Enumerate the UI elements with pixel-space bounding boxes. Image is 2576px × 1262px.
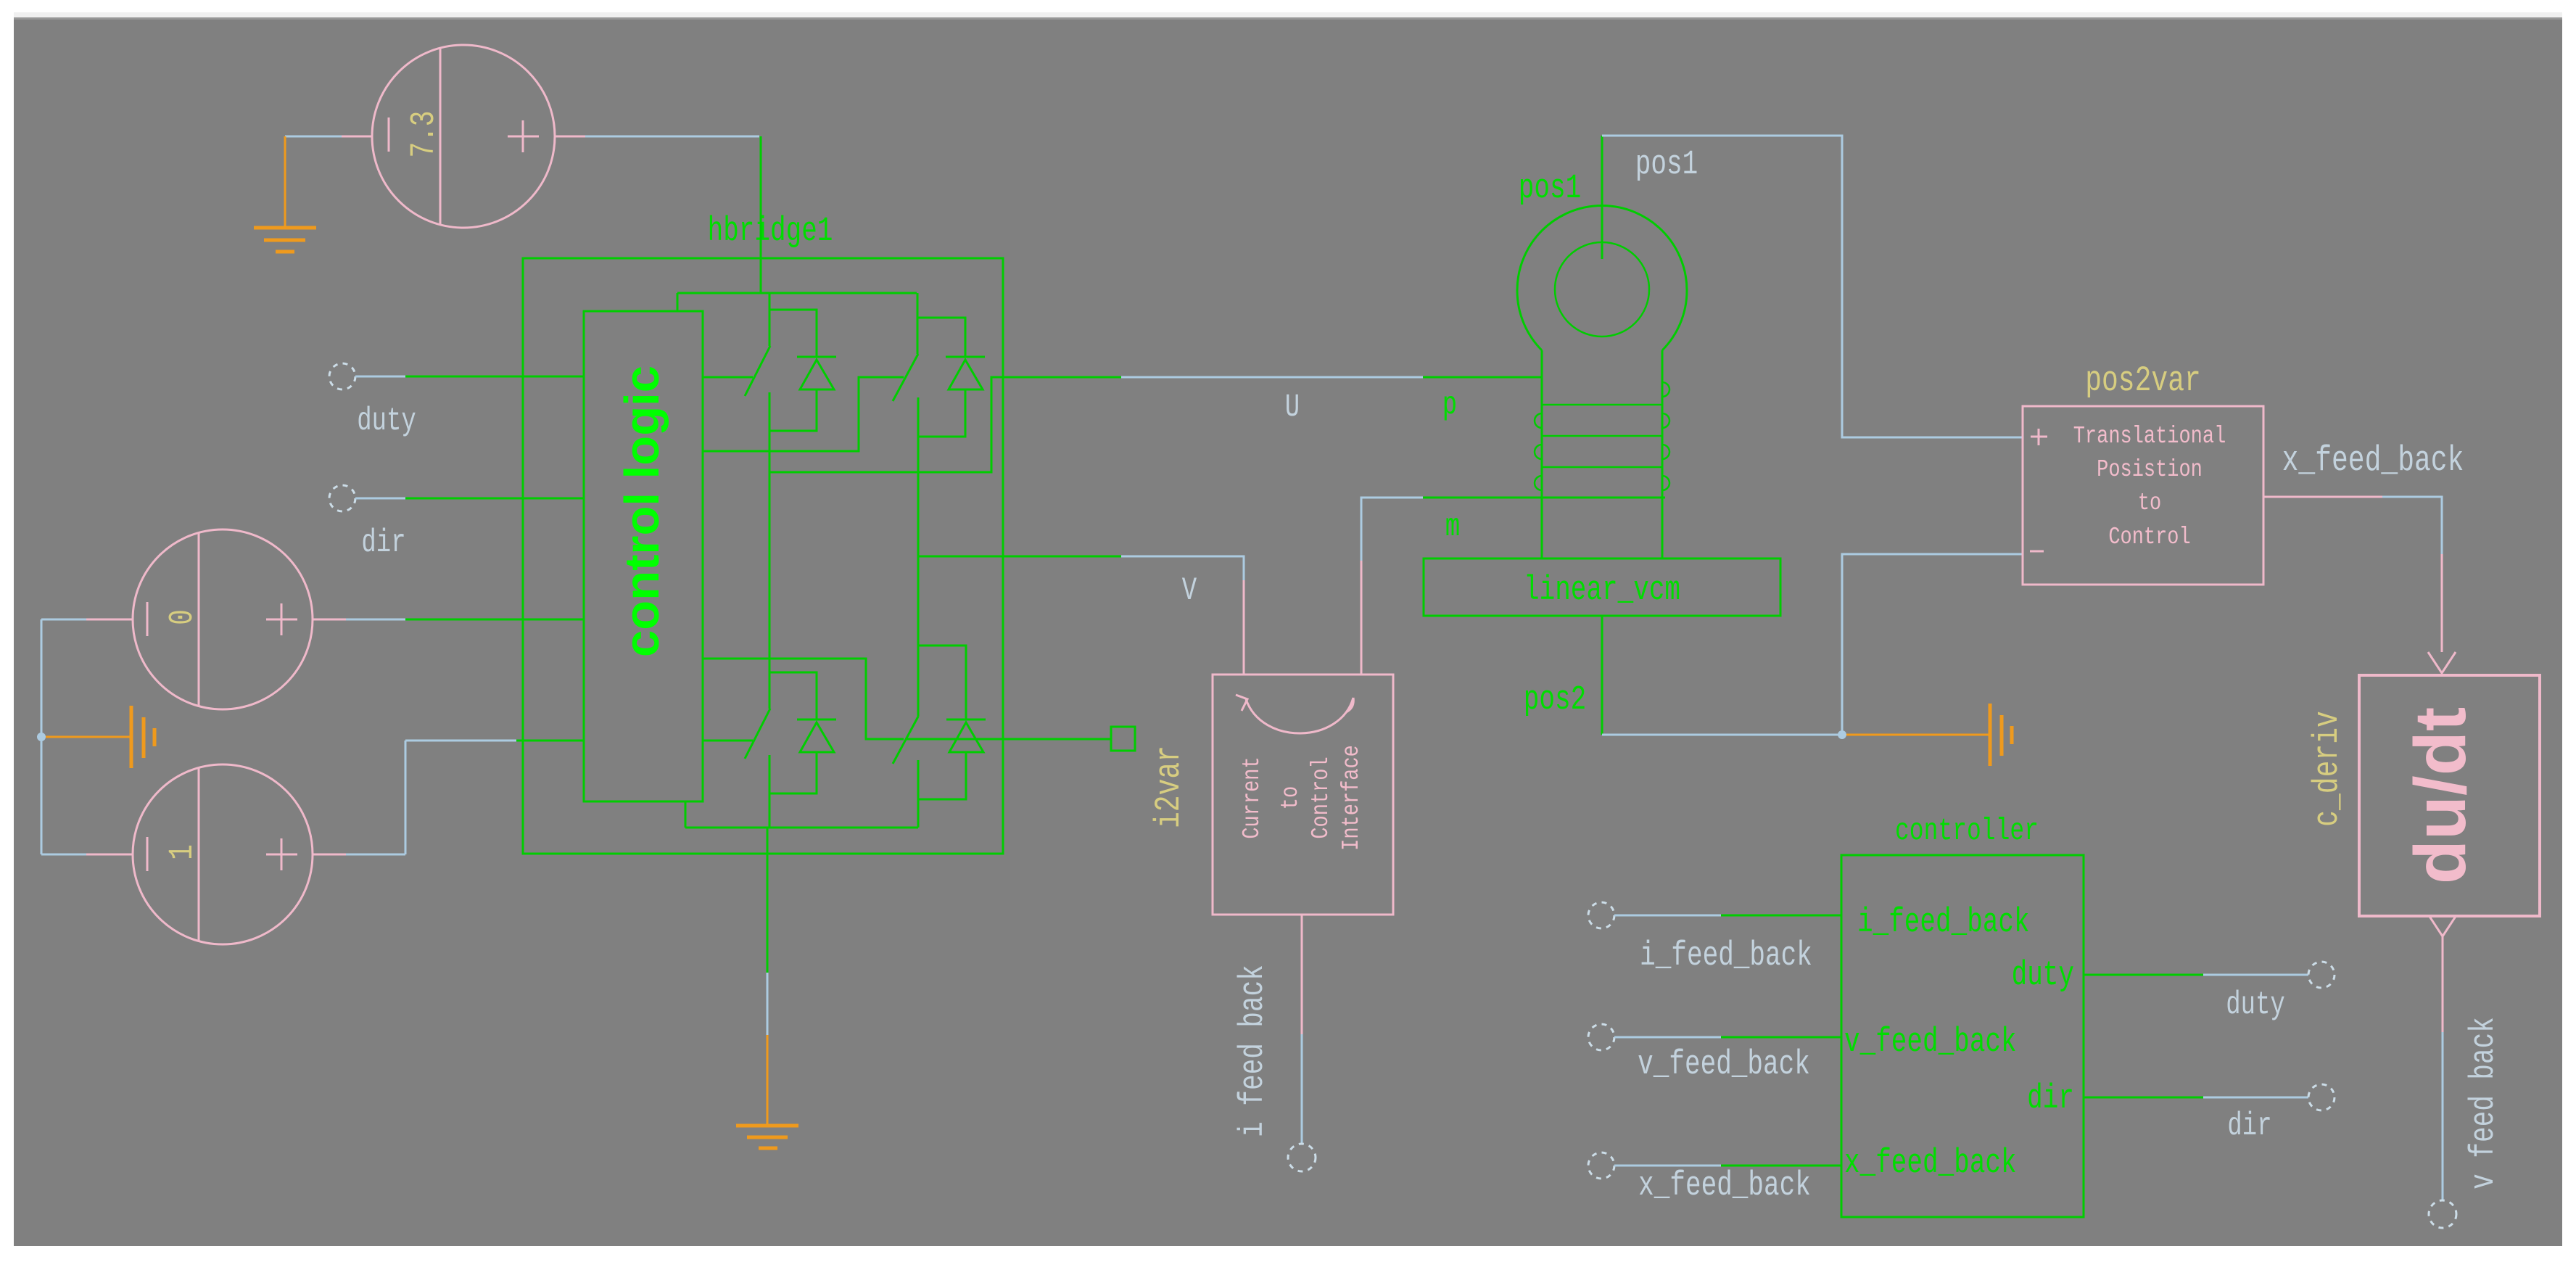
switch S1 top terminal bbox=[769, 293, 771, 346]
top rail bbox=[677, 292, 917, 294]
svg-text:p: p bbox=[1442, 387, 1457, 423]
phase U branch to right edge bbox=[769, 377, 1003, 472]
wire x_feed_back from pos2var to c_deriv bbox=[2263, 496, 2382, 498]
diode D2 bbox=[946, 356, 985, 358]
controller block box bbox=[1841, 855, 2084, 1217]
vcm ring outer bbox=[1517, 206, 1687, 350]
svg-text:Interface: Interface bbox=[1338, 745, 1366, 851]
ground at sources (rotated) bbox=[46, 706, 154, 768]
hbridge1 outer box bbox=[523, 258, 1003, 854]
svg-text:pos1: pos1 bbox=[1635, 145, 1698, 184]
svg-text:control logic: control logic bbox=[615, 366, 669, 657]
svg-text:x_feed_back: x_feed_back bbox=[2282, 441, 2464, 482]
svg-text:U: U bbox=[1285, 389, 1300, 425]
wire V2 minus left bbox=[86, 619, 133, 621]
svg-text:v feed back: v feed back bbox=[2464, 1017, 2503, 1189]
D1 anode link bbox=[769, 389, 817, 431]
svg-text:1: 1 bbox=[163, 844, 202, 860]
port v feed back bbox=[2429, 1200, 2456, 1228]
wire dir out bbox=[2084, 1097, 2203, 1099]
pos1 stem into ring bbox=[1601, 136, 1603, 259]
i2var block box bbox=[1213, 675, 1393, 915]
i2var arc symbol bbox=[1246, 698, 1353, 733]
switch S2 top link from rail bbox=[917, 293, 919, 354]
port i_feed_back bbox=[1588, 902, 1614, 928]
pos2 stem bbox=[1601, 616, 1603, 735]
port x_feed_back bbox=[1588, 1152, 1614, 1179]
svg-text:Control: Control bbox=[2108, 524, 2190, 551]
D3 cathode link bbox=[769, 672, 817, 719]
D1 cathode link bbox=[769, 310, 817, 357]
voltage source V2 value 0 bbox=[133, 529, 313, 709]
svg-text:c_deriv: c_deriv bbox=[2308, 711, 2348, 827]
supply wire from V1 into bridge bbox=[760, 136, 762, 293]
svg-text:pos2var: pos2var bbox=[2085, 361, 2201, 402]
svg-text:linear_vcm: linear_vcm bbox=[1524, 571, 1680, 610]
wire duty out bbox=[2084, 974, 2203, 976]
pos2var minus pin mark bbox=[2030, 550, 2044, 553]
diode D1 bbox=[797, 356, 836, 358]
svg-text:i_feed_back: i_feed_back bbox=[1857, 903, 2030, 942]
diode D3 bbox=[797, 719, 836, 721]
svg-text:controller: controller bbox=[1895, 814, 2039, 849]
c_deriv du/dt block box bbox=[2359, 675, 2540, 916]
arrow into du/dt bbox=[2428, 652, 2456, 673]
svg-text:i2var: i2var bbox=[1149, 746, 1190, 828]
D2 anode link bbox=[918, 389, 965, 437]
svg-text:i_feed_back: i_feed_back bbox=[1640, 936, 1812, 976]
vcm body right line bbox=[1661, 350, 1664, 558]
svg-text:v_feed_back: v_feed_back bbox=[1844, 1023, 2017, 1062]
port duty (input) bbox=[329, 363, 355, 389]
S4 blade bbox=[893, 717, 918, 764]
S1 gate wire bbox=[702, 376, 753, 379]
phase V branch to right edge bbox=[918, 556, 1003, 558]
svg-text:Posistion: Posistion bbox=[2097, 456, 2203, 484]
S2 gate wire bbox=[702, 377, 904, 451]
pos2var inner text bbox=[2073, 423, 2226, 551]
SECTION: right (pos2var, du/dt, controller) bbox=[1588, 361, 2540, 1228]
bottom rail bbox=[685, 827, 918, 829]
D4 anode link bbox=[918, 752, 966, 799]
pos2var plus pin mark bbox=[2030, 429, 2047, 551]
pos2var block box bbox=[2023, 406, 2263, 585]
wire vertical joining V2/V3 minus bbox=[41, 619, 43, 854]
svg-text:Translational: Translational bbox=[2073, 423, 2226, 450]
arrow below du/dt bbox=[2429, 915, 2456, 936]
wire V1 minus to ground bbox=[342, 136, 372, 138]
svg-text:Current: Current bbox=[1239, 756, 1266, 838]
svg-text:m: m bbox=[1445, 508, 1460, 545]
diode D4 bbox=[946, 719, 986, 721]
ground at bridge bottom bbox=[736, 1035, 798, 1148]
ground drop wire bbox=[767, 828, 769, 973]
wire v feed back bbox=[2442, 936, 2444, 1032]
S2 bottom terminal / phase V vertical bbox=[917, 397, 920, 646]
port i feed back bbox=[1288, 1144, 1316, 1171]
port v_feed_back bbox=[1588, 1024, 1614, 1050]
voltage source V1 value 7.3 bbox=[372, 45, 555, 228]
S4 bottom terminal bbox=[917, 760, 920, 828]
controller pin labels bbox=[1844, 903, 2074, 1183]
svg-text:i feed back: i feed back bbox=[1234, 965, 1273, 1137]
SECTION: left sources bbox=[37, 45, 759, 944]
D3 anode link bbox=[769, 752, 817, 793]
S1 blade bbox=[745, 346, 770, 396]
D2 cathode link bbox=[917, 318, 965, 357]
svg-text:duty: duty bbox=[2012, 956, 2074, 995]
svg-text:pos2: pos2 bbox=[1524, 680, 1586, 719]
S3 bottom terminal bbox=[769, 755, 771, 828]
linear vcm motor symbol bbox=[1424, 136, 1780, 735]
svg-text:pos1: pos1 bbox=[1519, 169, 1581, 208]
S2 blade bbox=[893, 354, 918, 401]
wire pos2 net bbox=[1602, 734, 1842, 736]
vcm ring inner circle bbox=[1555, 242, 1649, 337]
svg-text:Control: Control bbox=[1308, 756, 1335, 838]
wire V3 plus to hbridge bbox=[313, 854, 346, 856]
svg-text:v_feed_back: v_feed_back bbox=[1638, 1045, 1810, 1084]
wire m from vcm to i2var bbox=[1423, 497, 1665, 499]
square pin bbox=[1111, 727, 1135, 751]
vcm base box bbox=[1424, 558, 1780, 616]
port dir (input) bbox=[329, 485, 355, 511]
svg-text:duty: duty bbox=[2226, 986, 2285, 1023]
wire V2 plus to hbridge bbox=[313, 619, 346, 621]
control logic box bbox=[584, 311, 703, 801]
svg-text:0: 0 bbox=[163, 609, 202, 625]
S4 gate wire bbox=[702, 659, 904, 739]
vcm body left line bbox=[1541, 350, 1543, 558]
wire pos2var minus bbox=[1842, 554, 2023, 735]
i2var inner text bbox=[1239, 745, 1366, 851]
wire V3 minus left bbox=[86, 854, 133, 856]
switch S4 top terminal bbox=[917, 646, 920, 717]
SECTION: hbridge bbox=[523, 136, 1542, 1148]
svg-text:dir: dir bbox=[2227, 1108, 2271, 1144]
voltage source V3 value 1 bbox=[133, 764, 313, 944]
ground at V1 bbox=[254, 136, 316, 252]
S1 bottom terminal / phase U vertical bbox=[769, 392, 771, 709]
i2var bottom pin wire bbox=[1301, 915, 1303, 1034]
phase U wire to vcm bbox=[1003, 376, 1121, 379]
svg-text:dir: dir bbox=[2027, 1079, 2074, 1118]
port dir out bbox=[2308, 1084, 2334, 1110]
svg-text:du/dt: du/dt bbox=[2400, 707, 2481, 884]
svg-text:to: to bbox=[1277, 786, 1305, 809]
SECTION: middle (i2var, vcm) bbox=[1149, 136, 2023, 1171]
junction dot bbox=[37, 733, 46, 741]
phase V wire to i2var bbox=[1003, 556, 1121, 558]
coil turns bbox=[1535, 382, 1669, 490]
svg-text:hbridge1: hbridge1 bbox=[708, 212, 833, 251]
D4 cathode link bbox=[918, 646, 966, 719]
junction dot pos2 bbox=[1838, 730, 1846, 739]
wire dir sense to square pin bbox=[905, 738, 1111, 741]
ground at pos2 (rotated) bbox=[1846, 704, 2012, 766]
svg-text:duty: duty bbox=[357, 403, 416, 439]
svg-text:dir: dir bbox=[361, 524, 405, 561]
svg-text:x_feed_back: x_feed_back bbox=[1844, 1144, 2017, 1183]
port duty out bbox=[2308, 962, 2334, 988]
wire pos1 to pos2var plus bbox=[1602, 136, 2023, 437]
svg-text:x_feed_back: x_feed_back bbox=[1638, 1166, 1811, 1205]
svg-text:7.3: 7.3 bbox=[405, 111, 444, 158]
svg-text:to: to bbox=[2138, 490, 2161, 517]
svg-text:V: V bbox=[1182, 572, 1197, 609]
S3 gate wire bbox=[702, 740, 753, 742]
switch S3 blade bbox=[745, 709, 770, 759]
wire V1 plus to hbridge supply bbox=[555, 136, 585, 138]
